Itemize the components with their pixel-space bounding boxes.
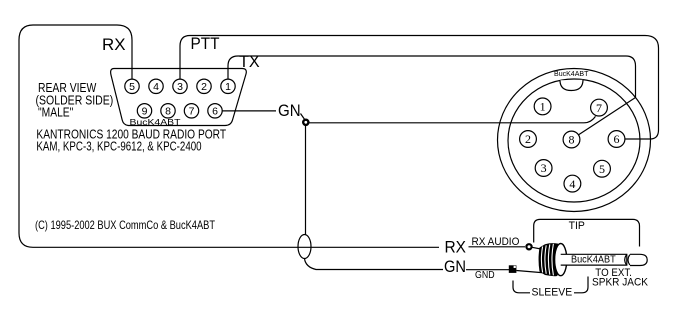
DIN pin 6 bbox=[608, 131, 625, 148]
plug shaft with label box bbox=[561, 254, 627, 265]
wire PTT from DB9 pin3 to DIN pin6 bbox=[180, 36, 659, 140]
svg-text:7: 7 bbox=[596, 101, 602, 115]
svg-text:8: 8 bbox=[569, 133, 575, 147]
node GND terminal square bbox=[509, 265, 517, 273]
wire hop exit to GND run bbox=[305, 259, 444, 270]
svg-text:1: 1 bbox=[225, 81, 231, 93]
DB9 pin 3 bbox=[173, 79, 187, 93]
svg-text:GN: GN bbox=[444, 257, 466, 276]
DB9 pin 5 bbox=[125, 79, 139, 93]
svg-text:3: 3 bbox=[541, 161, 547, 175]
svg-text:PTT: PTT bbox=[191, 34, 220, 53]
DB9 connector shell bbox=[111, 69, 247, 126]
node RX AUDIO terminal bbox=[526, 244, 531, 249]
bracket TIP bbox=[534, 219, 640, 246]
wire TX from DB9 pin1 to DIN pin8 bbox=[228, 56, 636, 135]
DIN pin 7 bbox=[591, 99, 608, 116]
DB9 pin 8 bbox=[161, 104, 175, 118]
bracket SLEEVE left bbox=[513, 281, 530, 293]
wire terminal to plug bbox=[532, 247, 541, 249]
wire GN text tail to junction bbox=[301, 114, 306, 121]
wire GND square to plug sleeve bbox=[516, 271, 558, 275]
plug tip bbox=[630, 254, 647, 265]
svg-text:9: 9 bbox=[142, 106, 148, 118]
DIN pin 4 bbox=[564, 175, 581, 192]
svg-text:5: 5 bbox=[129, 81, 135, 93]
svg-text:4: 4 bbox=[569, 177, 575, 191]
svg-text:BucK4ABT: BucK4ABT bbox=[571, 255, 616, 266]
svg-text:SPKR JACK: SPKR JACK bbox=[592, 277, 649, 289]
junction node GN bbox=[303, 120, 308, 125]
wire RX loop from DB9 pin5 around left/bottom to plug tip bbox=[19, 25, 439, 247]
svg-text:KAM, KPC-3, KPC-9612, & KPC-24: KAM, KPC-3, KPC-9612, & KPC-2400 bbox=[36, 139, 201, 154]
DIN pin 3 bbox=[535, 160, 552, 177]
svg-text:2: 2 bbox=[201, 81, 207, 93]
DIN pin 1 bbox=[534, 98, 551, 115]
svg-text:3: 3 bbox=[177, 81, 183, 93]
plug groove arcs bbox=[625, 255, 630, 265]
wire GN junction down to hop bbox=[305, 126, 307, 235]
svg-text:RX: RX bbox=[102, 35, 126, 54]
DIN pin 2 bbox=[520, 131, 537, 148]
wire RX AUDIO underline to terminal bbox=[469, 246, 526, 248]
DB9 pin 4 bbox=[149, 79, 163, 93]
svg-text:(C) 1995-2002 BUX CommCo & Buc: (C) 1995-2002 BUX CommCo & BucK4ABT bbox=[35, 218, 216, 232]
DB9 pin 6 bbox=[208, 104, 222, 118]
svg-text:BucK4ABT: BucK4ABT bbox=[554, 69, 589, 78]
DIN connector outer shell bbox=[498, 69, 651, 212]
svg-text:7: 7 bbox=[189, 106, 195, 118]
DB9 pin 1 bbox=[221, 79, 235, 93]
DIN pin 5 bbox=[594, 160, 611, 177]
svg-text:6: 6 bbox=[212, 106, 218, 118]
DIN connector inner face bbox=[508, 79, 640, 202]
DB9 pin 9 bbox=[137, 104, 151, 118]
svg-text:RX: RX bbox=[445, 237, 467, 256]
svg-text:"MALE": "MALE" bbox=[38, 105, 74, 120]
wire GN from DB9 pin6 to junction bbox=[222, 110, 276, 112]
svg-text:6: 6 bbox=[614, 132, 620, 146]
svg-text:GND: GND bbox=[475, 270, 495, 281]
svg-text:8: 8 bbox=[165, 106, 171, 118]
plug barrel end ellipse bbox=[555, 244, 567, 276]
svg-text:SLEEVE: SLEEVE bbox=[532, 287, 573, 299]
svg-text:5: 5 bbox=[599, 162, 605, 176]
DB9 pin 7 bbox=[184, 104, 198, 118]
bracket SLEEVE right bbox=[574, 277, 588, 293]
svg-text:TIP: TIP bbox=[569, 220, 585, 232]
wire GN to GND terminal bbox=[466, 269, 509, 271]
DB9 pin 2 bbox=[197, 79, 211, 93]
svg-text:4: 4 bbox=[153, 81, 159, 93]
svg-text:2: 2 bbox=[525, 132, 531, 146]
DIN pin 8 bbox=[563, 131, 580, 148]
DIN keyway notch bbox=[560, 80, 583, 91]
svg-text:GN: GN bbox=[278, 101, 301, 120]
plug strain spring bbox=[539, 243, 558, 276]
svg-text:1: 1 bbox=[540, 100, 546, 114]
hop loop over RX wire bbox=[298, 235, 311, 259]
wire GN junction to DIN pin7 bbox=[309, 116, 596, 123]
